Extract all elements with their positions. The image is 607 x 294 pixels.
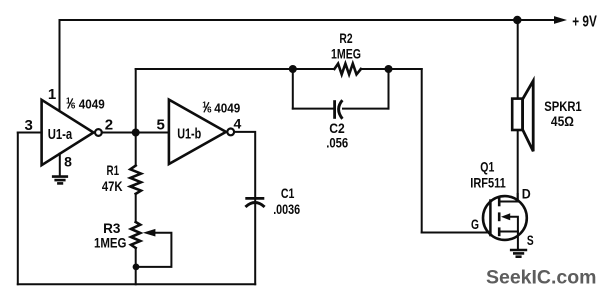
node dot left of R2 xyxy=(289,65,297,73)
Q1 drain external lead xyxy=(517,194,519,202)
svg-text:D: D xyxy=(522,185,531,201)
Q1 channel tick middle xyxy=(498,212,501,221)
wire to MOSFET gate xyxy=(422,232,491,234)
U1-a output bubble xyxy=(95,129,102,136)
svg-text:S: S xyxy=(527,232,534,248)
potentiometer R3 zigzag xyxy=(131,222,140,248)
svg-text:2: 2 xyxy=(105,117,113,134)
resistor R2 zigzag xyxy=(334,64,361,75)
Q1 gate bar xyxy=(489,199,492,236)
wire node to U1-b pin 5 xyxy=(136,132,169,134)
speaker SPKR1 cone xyxy=(523,81,534,152)
wire R1 to R3 xyxy=(135,194,137,222)
Q1 source internal lead xyxy=(499,231,518,233)
wire pin 3 input xyxy=(18,132,42,134)
ground Q1 source xyxy=(510,250,527,257)
U1-b output bubble xyxy=(227,129,234,136)
wire U1-b output to C1 branch xyxy=(234,132,255,284)
svg-text:4049: 4049 xyxy=(214,101,240,116)
+9V arrowhead xyxy=(554,16,567,24)
wire C2 branch left vertical xyxy=(292,69,294,109)
wire R3 wiper loop xyxy=(136,233,171,267)
transistor Q1 MOSFET circle xyxy=(483,196,527,240)
wire node up to R2/C2 feedback xyxy=(135,69,137,133)
node junction dot top rail / speaker xyxy=(513,16,521,24)
wire feedback horizontal run xyxy=(136,68,334,70)
wire speaker / drain vertical xyxy=(517,20,519,202)
svg-text:8: 8 xyxy=(64,153,72,169)
Q1 source external lead xyxy=(517,232,519,249)
svg-text:SeekIC.com: SeekIC.com xyxy=(486,266,597,288)
svg-text:1: 1 xyxy=(48,86,56,103)
label 1/6 4049 (U1-a) xyxy=(66,97,105,112)
capacitor C1 curved plate xyxy=(245,203,264,207)
speaker SPKR1 driver rectangle xyxy=(512,99,522,130)
svg-text:6: 6 xyxy=(71,102,76,111)
resistor R1 zigzag xyxy=(130,166,141,194)
svg-text:.056: .056 xyxy=(326,135,348,151)
svg-text:+ 9V: + 9V xyxy=(572,13,597,30)
svg-text:1MEG: 1MEG xyxy=(94,235,127,251)
svg-text:C1: C1 xyxy=(281,185,295,201)
wire U1-a output to node xyxy=(102,132,136,134)
svg-text:G: G xyxy=(471,217,479,232)
svg-text:4049: 4049 xyxy=(79,97,105,112)
svg-text:1MEG: 1MEG xyxy=(331,45,361,61)
svg-text:6: 6 xyxy=(207,105,212,114)
Q1 body arrow xyxy=(501,213,510,220)
wire C2 branch right vertical xyxy=(388,69,390,109)
label 1/6 4049 (U1-b) xyxy=(202,100,240,115)
Q1 drain internal lead xyxy=(499,201,518,203)
capacitor C2 curved plate xyxy=(339,100,343,119)
inverter U1-a (1/6 4049) triangle xyxy=(42,100,94,165)
svg-text:R2: R2 xyxy=(339,30,352,46)
svg-text:R1: R1 xyxy=(107,162,120,178)
wire R2 right to gate corner xyxy=(361,68,422,70)
svg-text:R3: R3 xyxy=(103,220,120,236)
svg-text:U1-b: U1-b xyxy=(177,126,201,142)
wire U1-a pin1 to +9V rail xyxy=(59,20,61,111)
Q1 body arrow lead xyxy=(509,217,518,232)
node dot right of R2 xyxy=(385,65,393,73)
svg-text:IRF511: IRF511 xyxy=(470,174,506,190)
wire C2 branch left horizontal xyxy=(293,108,334,110)
wire C2 branch right horizontal xyxy=(343,108,389,110)
svg-text:U1-a: U1-a xyxy=(48,127,73,143)
svg-text:SPKR1: SPKR1 xyxy=(544,99,582,114)
wire top +9V rail xyxy=(60,19,555,21)
wire node down to R1 xyxy=(135,133,137,166)
svg-text:3: 3 xyxy=(25,117,33,134)
capacitor C1 straight plate xyxy=(245,197,264,200)
wire R3 bottom to rail xyxy=(135,248,137,284)
svg-text:C2: C2 xyxy=(329,120,345,136)
Q1 channel tick bottom xyxy=(498,227,501,236)
svg-text:4: 4 xyxy=(234,116,242,132)
svg-text:47K: 47K xyxy=(102,178,123,194)
capacitor C2 straight plate xyxy=(333,100,336,119)
wire left feedback rail xyxy=(17,133,19,285)
wire gate feedback vertical xyxy=(421,69,423,233)
svg-text:Q1: Q1 xyxy=(480,160,494,175)
node dot R3 wiper junction xyxy=(133,264,140,271)
R3 wiper arrowhead xyxy=(143,229,156,237)
svg-text:45Ω: 45Ω xyxy=(551,114,574,129)
svg-text:.0036: .0036 xyxy=(273,201,300,217)
Q1 channel tick top xyxy=(498,198,501,207)
ground U1-a pin 8 xyxy=(52,177,68,184)
wire bottom rail xyxy=(18,283,255,285)
inverter U1-b (1/6 4049) triangle xyxy=(169,100,226,164)
wire pin 8 to ground xyxy=(59,154,61,176)
svg-text:5: 5 xyxy=(157,117,165,134)
node junction dot pin2/pin5 xyxy=(132,129,140,137)
